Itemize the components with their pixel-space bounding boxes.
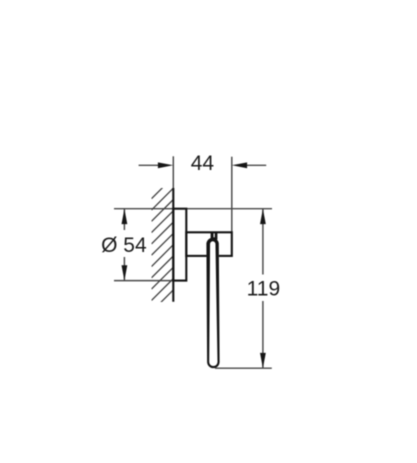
dimension line O54 lower segment <box>123 257 125 281</box>
arrow O54 up <box>122 209 128 224</box>
wall plate (escutcheon, side view) <box>173 209 186 281</box>
ring white underlay <box>206 238 219 368</box>
extension line top (O54/119 upper, along plate top) <box>114 208 272 210</box>
dimension line 44 right tail <box>244 164 266 166</box>
pivot pin slit <box>214 233 215 237</box>
extension line bottom-right (119 lower, at ring bottom) <box>215 367 272 369</box>
dimension line 119 upper segment <box>262 209 264 275</box>
arrow 44 left <box>158 162 173 168</box>
arrow 119 down <box>260 353 266 368</box>
dimension line 119 lower segment <box>262 301 264 368</box>
paper roll ring (side view) <box>206 238 219 368</box>
arrow O54 down <box>122 265 128 280</box>
pivot pin <box>211 233 218 240</box>
extension line bottom-left (O54 lower, along plate bottom) <box>114 280 186 282</box>
dimension line O54 upper segment <box>123 209 125 230</box>
svg-text:44: 44 <box>191 152 215 175</box>
arrow 44 right <box>232 162 247 168</box>
svg-text:Ø 54: Ø 54 <box>101 234 147 257</box>
wall hatching <box>152 177 174 312</box>
wall face line <box>172 188 174 302</box>
extension line 44 right <box>231 157 233 233</box>
holder arm base (side view) <box>186 232 232 256</box>
arrow 119 up <box>260 209 266 224</box>
svg-text:119: 119 <box>247 278 280 301</box>
dimension line 44 left tail <box>139 164 161 166</box>
extension line 44 left (above wall) <box>172 156 174 189</box>
